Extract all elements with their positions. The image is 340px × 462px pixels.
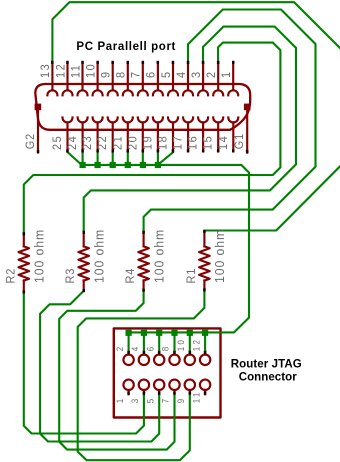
svg-text:9: 9: [176, 397, 186, 404]
svg-text:7: 7: [130, 70, 143, 78]
svg-text:5: 5: [160, 70, 173, 78]
svg-text:6: 6: [145, 345, 155, 352]
svg-text:PC Parallell port: PC Parallell port: [76, 41, 175, 53]
svg-text:100 ohm: 100 ohm: [92, 229, 106, 283]
svg-text:8: 8: [115, 70, 128, 78]
svg-text:Connector: Connector: [239, 372, 298, 384]
svg-text:3: 3: [130, 397, 140, 404]
svg-text:R4: R4: [125, 268, 138, 284]
svg-text:13: 13: [40, 63, 53, 78]
svg-text:Router JTAG: Router JTAG: [231, 359, 302, 371]
svg-text:19: 19: [142, 135, 155, 150]
svg-text:11: 11: [70, 64, 83, 78]
svg-text:1: 1: [221, 70, 234, 78]
svg-text:16: 16: [187, 135, 200, 150]
svg-text:G2: G2: [24, 133, 37, 149]
svg-text:9: 9: [100, 70, 113, 78]
svg-text:4: 4: [175, 70, 188, 78]
svg-text:3: 3: [190, 70, 203, 78]
svg-text:24: 24: [67, 135, 80, 150]
svg-text:12: 12: [55, 63, 68, 78]
svg-text:7: 7: [160, 397, 170, 404]
svg-text:14: 14: [217, 135, 230, 150]
svg-text:20: 20: [127, 135, 140, 150]
svg-text:100 ohm: 100 ohm: [152, 229, 166, 283]
svg-text:11: 11: [191, 390, 201, 403]
svg-text:10: 10: [85, 63, 98, 78]
svg-text:R1: R1: [185, 268, 198, 284]
svg-text:8: 8: [160, 345, 170, 352]
svg-text:1: 1: [114, 397, 124, 404]
svg-text:R2: R2: [5, 268, 18, 284]
svg-text:6: 6: [145, 70, 158, 78]
svg-text:25: 25: [52, 135, 65, 150]
svg-text:R3: R3: [65, 268, 78, 284]
svg-text:17: 17: [172, 135, 185, 150]
svg-text:2: 2: [206, 70, 219, 78]
svg-text:15: 15: [202, 135, 215, 150]
svg-text:G1: G1: [234, 133, 247, 149]
svg-text:5: 5: [145, 397, 155, 404]
svg-text:100 ohm: 100 ohm: [32, 229, 46, 283]
svg-text:100 ohm: 100 ohm: [213, 229, 227, 283]
svg-text:23: 23: [82, 135, 95, 150]
svg-text:21: 21: [112, 135, 125, 150]
svg-text:18: 18: [157, 135, 170, 150]
svg-text:2: 2: [114, 345, 124, 352]
svg-text:22: 22: [97, 135, 110, 150]
svg-text:12: 12: [191, 338, 201, 351]
svg-text:10: 10: [176, 338, 186, 351]
svg-text:4: 4: [130, 345, 140, 352]
